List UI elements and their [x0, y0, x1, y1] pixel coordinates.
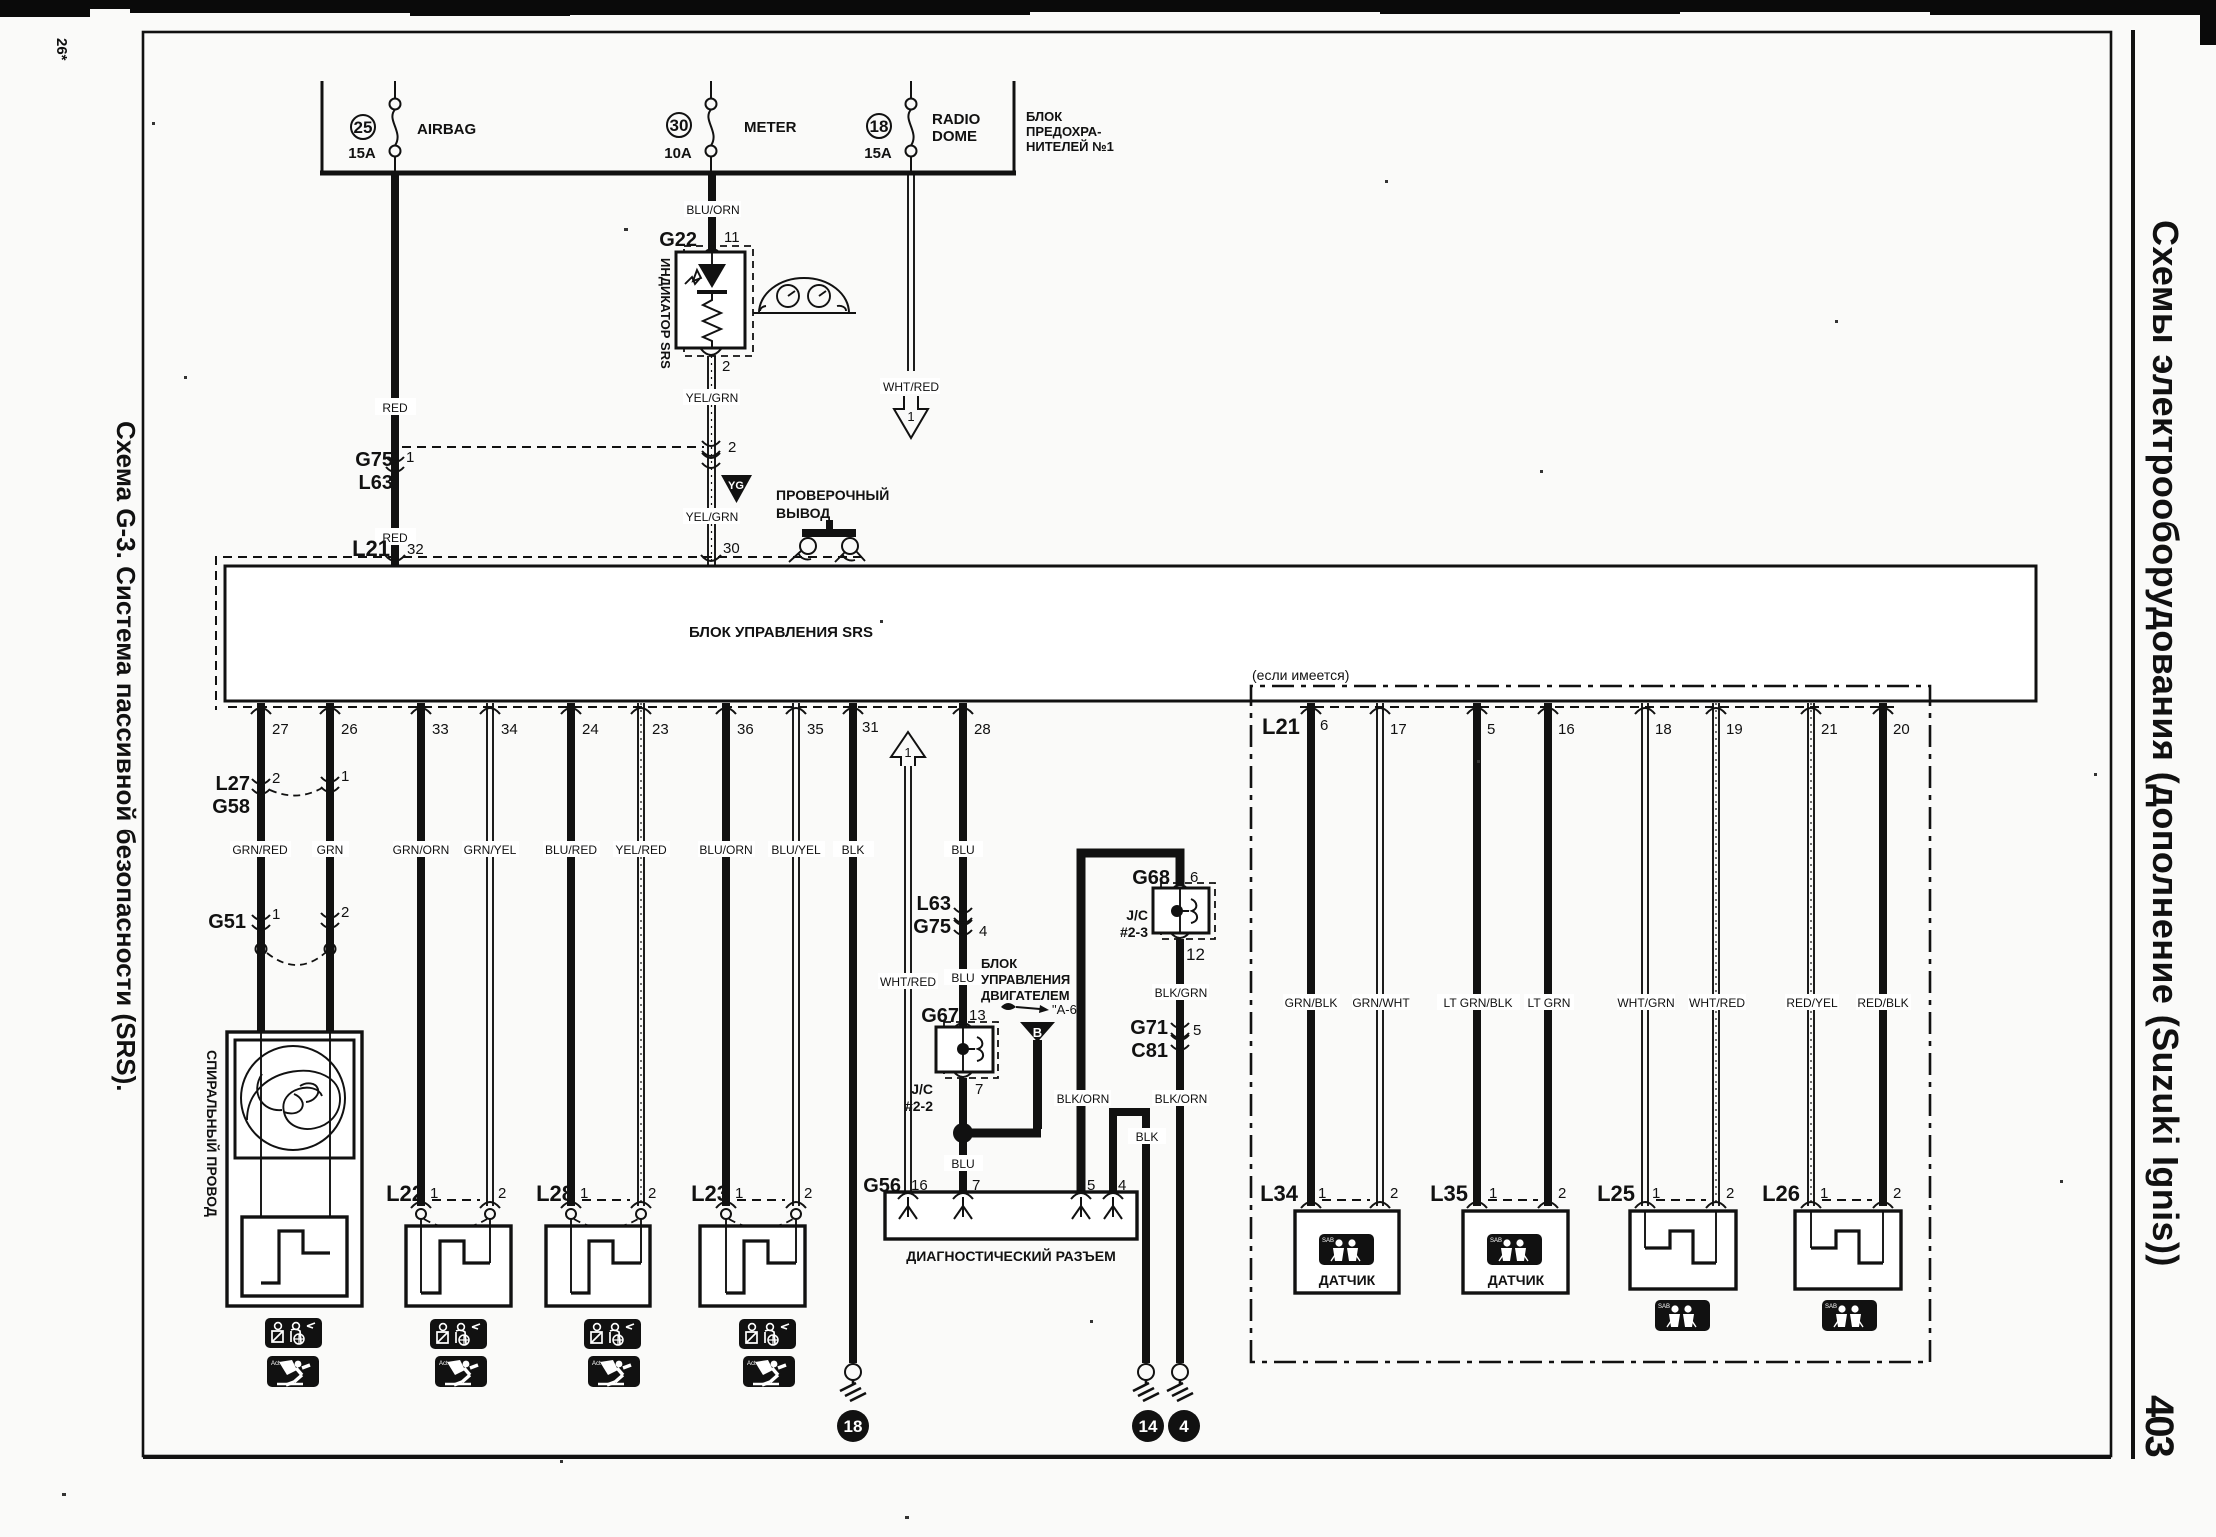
svg-text:2: 2 — [804, 1185, 812, 1202]
B arrow — [1020, 1022, 1055, 1042]
pin 19 — [1706, 708, 1726, 714]
svg-text:J/C: J/C — [911, 1081, 933, 1097]
fuse 30 METER — [710, 81, 712, 99]
svg-text:30: 30 — [670, 116, 689, 135]
pin 23 — [631, 708, 651, 714]
wire labels — [230, 841, 291, 857]
svg-text:24: 24 — [582, 721, 599, 738]
eye symbol to A-6 — [1001, 1003, 1016, 1010]
svg-text:6: 6 — [1320, 717, 1328, 734]
wire GRN pin26 — [326, 703, 334, 1032]
svg-text:B: B — [1033, 1025, 1042, 1040]
wire BLU/RED pin24 — [567, 703, 575, 1206]
wire BLU — [959, 703, 967, 1027]
svg-text:2: 2 — [648, 1185, 656, 1202]
svg-text:G22: G22 — [659, 229, 697, 251]
svg-text:LT GRN/BLK: LT GRN/BLK — [1444, 996, 1513, 1010]
indicator G22 box — [684, 246, 753, 356]
svg-text:УПРАВЛЕНИЯ: УПРАВЛЕНИЯ — [981, 972, 1070, 987]
svg-text:18: 18 — [870, 117, 889, 136]
svg-text:ИНДИКАТОР SRS: ИНДИКАТОР SRS — [658, 258, 673, 369]
svg-text:17: 17 — [1390, 721, 1407, 738]
wire RED/BLK pin20 — [1879, 703, 1887, 1206]
svg-text:25: 25 — [354, 118, 373, 137]
svg-text:403: 403 — [2137, 1395, 2181, 1456]
svg-text:GRN/WHT: GRN/WHT — [1352, 996, 1410, 1010]
wire BLU below J/C — [959, 1078, 967, 1192]
svg-text:WHT/GRN: WHT/GRN — [1617, 996, 1674, 1010]
svg-text:(если имеется): (если имеется) — [1252, 667, 1349, 683]
svg-text:1: 1 — [341, 768, 349, 785]
pin 33 — [411, 708, 431, 714]
svg-text:BLU: BLU — [951, 1157, 974, 1171]
svg-text:БЛОК УПРАВЛЕНИЯ SRS: БЛОК УПРАВЛЕНИЯ SRS — [689, 624, 873, 641]
ground 18 badge — [837, 1410, 869, 1442]
wire WHT/RED pin19 — [1713, 703, 1719, 1206]
svg-text:YG: YG — [728, 480, 744, 492]
svg-text:L63: L63 — [917, 893, 951, 915]
pin 35 — [786, 708, 806, 714]
spiral symbol — [241, 1046, 345, 1150]
arrow 1 down — [894, 396, 928, 438]
svg-text:RED/YEL: RED/YEL — [1786, 996, 1838, 1010]
pin 21 — [1801, 708, 1821, 714]
wire LT GRN pin16 — [1544, 703, 1552, 1206]
SRS control unit box — [225, 566, 2036, 701]
svg-text:ДВИГАТЕЛЕМ: ДВИГАТЕЛЕМ — [981, 988, 1070, 1003]
fuse 25 AIRBAG — [394, 81, 396, 99]
svg-text:33: 33 — [432, 721, 449, 738]
svg-text:L21: L21 — [352, 536, 390, 561]
svg-text:L27: L27 — [216, 773, 250, 795]
svg-text:BLU/ORN: BLU/ORN — [686, 203, 739, 217]
squib L28 — [571, 1241, 641, 1293]
svg-text:BLK: BLK — [1136, 1130, 1159, 1144]
svg-text:18: 18 — [1655, 721, 1672, 738]
svg-text:7: 7 — [975, 1081, 983, 1098]
wire YEL/RED pin23 — [638, 703, 644, 1206]
svg-text:G71: G71 — [1130, 1017, 1168, 1039]
wire BLU/ORN — [708, 175, 716, 252]
connector G51 — [252, 915, 270, 930]
svg-text:10A: 10A — [664, 145, 692, 162]
svg-text:27: 27 — [272, 721, 289, 738]
svg-text:26*: 26* — [53, 38, 70, 61]
svg-text:4: 4 — [979, 923, 987, 940]
pin 28 — [953, 708, 973, 714]
svg-text:BLK/ORN: BLK/ORN — [1155, 1092, 1208, 1106]
svg-text:BLK/GRN: BLK/GRN — [1155, 986, 1208, 1000]
squib L25 — [1645, 1231, 1716, 1263]
ground 4 badge — [1168, 1410, 1200, 1442]
svg-text:2: 2 — [272, 770, 280, 787]
svg-text:ДИАГНОСТИЧЕСКИЙ РАЗЪЕМ: ДИАГНОСТИЧЕСКИЙ РАЗЪЕМ — [906, 1247, 1115, 1264]
svg-text:НИТЕЛЕЙ №1: НИТЕЛЕЙ №1 — [1026, 139, 1114, 154]
pin 24 — [561, 708, 581, 714]
svg-text:28: 28 — [974, 721, 991, 738]
wire RED/YEL pin21 — [1808, 703, 1814, 1206]
svg-text:Схема G-3. Система пассивной б: Схема G-3. Система пассивной безопасност… — [111, 421, 141, 1092]
svg-text:2: 2 — [728, 439, 736, 456]
pin 2 of G22 — [701, 349, 721, 355]
svg-text:32: 32 — [407, 541, 424, 558]
connector G71/C81 pin 5 — [1171, 1023, 1189, 1038]
svg-text:BLU/RED: BLU/RED — [545, 843, 597, 857]
svg-text:#2-2: #2-2 — [905, 1098, 933, 1114]
pin 20 — [1873, 708, 1893, 714]
wire GRN/WHT pin17 — [1377, 703, 1383, 1206]
pin dashes — [228, 706, 966, 708]
svg-text:C81: C81 — [1131, 1040, 1168, 1062]
svg-text:26: 26 — [341, 721, 358, 738]
pin 18 — [1635, 708, 1655, 714]
svg-text:5: 5 — [1487, 721, 1495, 738]
svg-text:RADIO: RADIO — [932, 111, 981, 128]
wire BLK/GRN — [1176, 939, 1184, 1363]
YG color tag — [721, 475, 752, 503]
svg-text:L21: L21 — [1262, 714, 1300, 739]
svg-text:36: 36 — [737, 721, 754, 738]
svg-text:2: 2 — [1726, 1185, 1734, 1202]
svg-text:СПИРАЛЬНЫЙ ПРОВОД: СПИРАЛЬНЫЙ ПРОВОД — [204, 1050, 221, 1217]
svg-text:2: 2 — [498, 1185, 506, 1202]
svg-text:G58: G58 — [212, 796, 250, 818]
resistor — [703, 294, 721, 348]
svg-text:GRN/ORN: GRN/ORN — [393, 843, 450, 857]
svg-text:YEL/GRN: YEL/GRN — [686, 510, 739, 524]
svg-text:2: 2 — [1893, 1185, 1901, 1202]
wire dashed link G75 to G22 pin2 — [402, 446, 704, 448]
svg-text:G68: G68 — [1132, 867, 1170, 889]
svg-text:L35: L35 — [1430, 1181, 1468, 1206]
fuse box bar — [322, 81, 1014, 171]
connector L27/G58 — [252, 779, 270, 794]
svg-text:2: 2 — [1390, 1185, 1398, 1202]
squib L22 — [421, 1241, 490, 1293]
svg-text:GRN: GRN — [317, 843, 344, 857]
connector L63/G75 pin 4 — [954, 908, 972, 923]
wire RED — [391, 175, 399, 566]
svg-text:GRN/RED: GRN/RED — [232, 843, 288, 857]
wire BLU/ORN pin36 — [722, 703, 730, 1206]
svg-text:WHT/RED: WHT/RED — [883, 380, 939, 394]
svg-text:WHT/RED: WHT/RED — [880, 975, 936, 989]
svg-text:DOME: DOME — [932, 128, 977, 145]
svg-text:METER: METER — [744, 119, 797, 136]
ground 14 symbol — [1133, 1364, 1159, 1401]
svg-text:L25: L25 — [1597, 1181, 1635, 1206]
ground 4 — [1167, 1364, 1193, 1401]
svg-text:Схемы электрооборудования (доп: Схемы электрооборудования (дополнение (S… — [2145, 220, 2186, 1267]
wire GRN/BLK pin6 — [1307, 703, 1315, 1206]
wire (thin) pin1 path — [260, 1032, 262, 1283]
svg-text:L63: L63 — [359, 472, 393, 494]
svg-text:2: 2 — [341, 904, 349, 921]
svg-text:15A: 15A — [864, 145, 892, 162]
wire RED label 2 — [375, 528, 416, 545]
svg-text:19: 19 — [1726, 721, 1743, 738]
svg-text:21: 21 — [1821, 721, 1838, 738]
svg-text:1: 1 — [272, 906, 280, 923]
svg-text:BLU/YEL: BLU/YEL — [771, 843, 821, 857]
svg-text:12: 12 — [1186, 945, 1205, 964]
svg-text:ДАТЧИК: ДАТЧИК — [1488, 1272, 1545, 1288]
ground 14 badge — [1132, 1410, 1164, 1442]
squib box — [242, 1217, 347, 1296]
dashed connector outline — [216, 557, 862, 710]
LED symbol — [711, 252, 713, 264]
svg-text:16: 16 — [1558, 721, 1575, 738]
J/C #2-2 box — [944, 1022, 998, 1078]
svg-text:5: 5 — [1193, 1022, 1201, 1039]
svg-text:34: 34 — [501, 721, 518, 738]
pin 5 — [1467, 708, 1487, 714]
ground 18 symbol — [840, 1364, 866, 1401]
svg-text:J/C: J/C — [1126, 907, 1148, 923]
wire GRN/RED pin27 — [257, 703, 265, 1032]
svg-text:RED: RED — [382, 401, 408, 415]
pin 27 — [251, 708, 271, 714]
squib element — [261, 1231, 330, 1283]
svg-text:BLU/ORN: BLU/ORN — [699, 843, 752, 857]
svg-text:БЛОК: БЛОК — [981, 956, 1017, 971]
svg-text:LT GRN: LT GRN — [1528, 996, 1571, 1010]
svg-text:G67: G67 — [921, 1005, 959, 1027]
svg-text:ПРОВЕРОЧНЫЙ: ПРОВЕРОЧНЫЙ — [776, 486, 889, 503]
svg-text:БЛОК: БЛОК — [1026, 109, 1062, 124]
right sidebar rule — [2131, 30, 2135, 1459]
svg-text:18: 18 — [844, 1417, 863, 1436]
scan top black border — [0, 0, 2216, 45]
svg-text:14: 14 — [1139, 1417, 1158, 1436]
wire LT GRN/BLK pin5 — [1473, 703, 1481, 1206]
pin 36 — [716, 708, 736, 714]
svg-text:G51: G51 — [208, 911, 246, 933]
pin 31 — [843, 708, 863, 714]
pin 17 — [1370, 708, 1390, 714]
svg-text:L26: L26 — [1762, 1181, 1800, 1206]
svg-text:BLK/ORN: BLK/ORN — [1057, 1092, 1110, 1106]
wire WHT/GRN pin18 — [1642, 703, 1648, 1206]
svg-text:WHT/RED: WHT/RED — [1689, 996, 1745, 1010]
svg-text:G75: G75 — [355, 449, 393, 471]
svg-text:BLU: BLU — [951, 971, 974, 985]
svg-text:11: 11 — [724, 229, 740, 246]
pin 34 — [480, 708, 500, 714]
arrow 1 up — [891, 732, 925, 766]
connector G75/L63 pin 1 — [386, 457, 404, 472]
instrument cluster sketch — [759, 278, 849, 313]
squib L26 — [1811, 1231, 1883, 1263]
svg-text:31: 31 — [862, 719, 879, 736]
svg-text:GRN/BLK: GRN/BLK — [1285, 996, 1338, 1010]
wire YEL/GRN — [708, 356, 715, 566]
svg-text:15A: 15A — [348, 145, 376, 162]
svg-text:ДАТЧИК: ДАТЧИК — [1319, 1272, 1376, 1288]
wire BLU/YEL pin35 — [793, 703, 799, 1206]
svg-text:RED/BLK: RED/BLK — [1857, 996, 1908, 1010]
fuse 18 RADIO DOME — [910, 81, 912, 99]
svg-text:#2-3: #2-3 — [1120, 924, 1148, 940]
junction node — [953, 1123, 973, 1143]
svg-text:L34: L34 — [1260, 1181, 1299, 1206]
squib L23 — [726, 1241, 796, 1293]
svg-text:ВЫВОД: ВЫВОД — [776, 505, 830, 521]
svg-text:30: 30 — [723, 540, 740, 557]
pin 26 — [320, 708, 340, 714]
svg-text:2: 2 — [722, 358, 730, 375]
svg-text:20: 20 — [1893, 721, 1910, 738]
svg-text:2: 2 — [1558, 1185, 1566, 1202]
svg-text:YEL/GRN: YEL/GRN — [686, 391, 739, 405]
wire GRN/ORN pin33 — [417, 703, 425, 1206]
wire to B arrow — [963, 1129, 1041, 1138]
svg-text:23: 23 — [652, 721, 669, 738]
svg-text:BLU: BLU — [951, 843, 974, 857]
svg-text:BLK: BLK — [842, 843, 865, 857]
svg-text:1: 1 — [904, 745, 911, 760]
svg-text:35: 35 — [807, 721, 824, 738]
connector pin 2 — [702, 441, 720, 456]
svg-text:GRN/YEL: GRN/YEL — [464, 843, 517, 857]
wire GRN/YEL pin34 — [487, 703, 493, 1206]
svg-text:1: 1 — [406, 449, 414, 466]
pin 16 — [1538, 708, 1558, 714]
svg-text:1: 1 — [907, 409, 914, 424]
svg-text:G75: G75 — [913, 916, 951, 938]
svg-text:AIRBAG: AIRBAG — [417, 121, 476, 138]
svg-text:4: 4 — [1179, 1417, 1189, 1436]
svg-text:YEL/RED: YEL/RED — [615, 843, 667, 857]
pin 6 — [1301, 708, 1321, 714]
svg-text:ПРЕДОХРА-: ПРЕДОХРА- — [1026, 124, 1101, 139]
